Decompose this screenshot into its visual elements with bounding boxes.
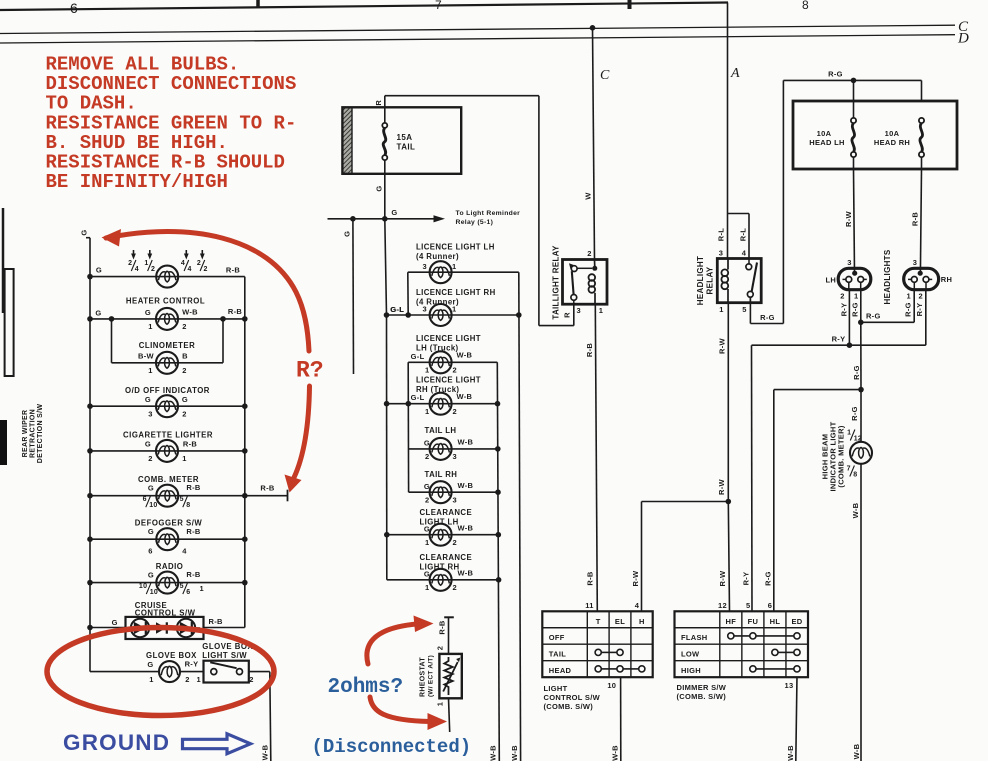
svg-text:6: 6 — [148, 546, 152, 555]
svg-text:TAILLIGHT RELAY: TAILLIGHT RELAY — [551, 245, 560, 320]
svg-text:7: 7 — [435, 0, 442, 12]
svg-text:(COMB. S/W): (COMB. S/W) — [677, 692, 727, 701]
svg-text:HEAD RH: HEAD RH — [874, 138, 910, 147]
svg-text:3: 3 — [719, 249, 723, 258]
svg-text:RH: RH — [941, 275, 952, 284]
svg-text:R-Y: R-Y — [185, 660, 199, 669]
svg-text:(4 Runner): (4 Runner) — [416, 252, 459, 261]
svg-text:1: 1 — [144, 260, 148, 267]
svg-text:1: 1 — [452, 262, 456, 271]
svg-text:B-W: B-W — [138, 352, 155, 361]
svg-text:R-G: R-G — [828, 70, 843, 79]
svg-text:7: 7 — [847, 466, 851, 473]
svg-text:H: H — [639, 617, 645, 626]
svg-text:1: 1 — [149, 675, 153, 684]
svg-text:RADIO: RADIO — [156, 562, 184, 571]
svg-text:11: 11 — [585, 601, 594, 610]
svg-text:R-L: R-L — [738, 228, 747, 242]
svg-text:5: 5 — [180, 496, 184, 503]
svg-text:3: 3 — [913, 258, 917, 267]
svg-text:1: 1 — [425, 407, 429, 416]
svg-text:2: 2 — [453, 583, 457, 592]
svg-text:2ohms?: 2ohms? — [328, 676, 404, 699]
svg-text:10: 10 — [149, 502, 157, 509]
svg-text:HEAD LH: HEAD LH — [809, 138, 844, 147]
svg-text:DETECTION S/W: DETECTION S/W — [37, 404, 44, 464]
svg-text:10: 10 — [150, 589, 158, 596]
svg-text:T: T — [596, 617, 601, 626]
svg-text:R-B: R-B — [183, 439, 198, 448]
svg-text:2: 2 — [425, 495, 429, 504]
svg-text:1: 1 — [425, 538, 429, 547]
svg-text:FLASH: FLASH — [681, 633, 708, 642]
svg-text:R-G: R-G — [850, 406, 859, 421]
svg-text:W-B: W-B — [488, 745, 497, 761]
svg-text:2: 2 — [197, 260, 201, 267]
svg-text:10: 10 — [139, 583, 147, 590]
svg-text:3: 3 — [577, 306, 581, 315]
svg-text:CLEARANCE: CLEARANCE — [420, 508, 473, 517]
svg-text:1: 1 — [182, 454, 186, 463]
svg-text:2: 2 — [453, 538, 457, 547]
svg-text:HEAD: HEAD — [549, 666, 572, 675]
svg-text:6: 6 — [70, 0, 78, 16]
svg-text:LICENCE LIGHT RH: LICENCE LIGHT RH — [416, 288, 496, 297]
svg-text:(W/ ECT A/T): (W/ ECT A/T) — [428, 655, 435, 697]
svg-text:A: A — [730, 66, 740, 81]
svg-text:8: 8 — [186, 502, 190, 509]
svg-text:G: G — [148, 571, 154, 580]
svg-text:W-B: W-B — [786, 745, 795, 761]
svg-text:1: 1 — [425, 366, 429, 375]
svg-text:G: G — [80, 229, 89, 235]
svg-text:CLEARANCE: CLEARANCE — [420, 553, 473, 562]
svg-text:R-G: R-G — [904, 302, 913, 317]
svg-text:R-G: R-G — [760, 313, 775, 322]
svg-text:2: 2 — [919, 292, 923, 301]
svg-text:2: 2 — [151, 266, 155, 273]
svg-text:R-B: R-B — [186, 483, 201, 492]
svg-text:W-B: W-B — [510, 745, 519, 761]
svg-text:1: 1 — [148, 322, 152, 331]
svg-text:DIMMER S/W: DIMMER S/W — [677, 683, 727, 692]
svg-text:LICENCE LIGHT: LICENCE LIGHT — [416, 334, 481, 343]
svg-text:1: 1 — [148, 366, 152, 375]
svg-text:CONTROL S/W: CONTROL S/W — [544, 693, 601, 702]
svg-text:6: 6 — [768, 601, 772, 610]
svg-text:4: 4 — [181, 260, 185, 267]
svg-text:TAIL RH: TAIL RH — [425, 470, 458, 479]
svg-text:CLINOMETER: CLINOMETER — [139, 341, 196, 350]
svg-text:W-B: W-B — [182, 308, 198, 317]
svg-text:R-Y: R-Y — [915, 303, 924, 317]
svg-text:(COMB. METER): (COMB. METER) — [837, 425, 846, 487]
svg-text:B: B — [182, 352, 188, 361]
svg-text:G-L: G-L — [411, 352, 425, 361]
svg-text:W-B: W-B — [458, 524, 474, 533]
svg-text:5: 5 — [746, 601, 750, 610]
svg-text:2: 2 — [587, 249, 591, 258]
svg-text:R-W: R-W — [844, 210, 853, 227]
svg-text:ED: ED — [791, 617, 802, 626]
svg-text:W-B: W-B — [611, 745, 620, 761]
svg-text:G: G — [343, 231, 352, 237]
svg-text:G: G — [424, 439, 430, 448]
svg-text:10: 10 — [607, 681, 616, 690]
svg-text:R-Y: R-Y — [832, 334, 846, 343]
svg-text:2: 2 — [435, 646, 444, 650]
svg-text:2: 2 — [204, 266, 208, 273]
svg-text:HIGH: HIGH — [681, 666, 701, 675]
svg-text:HEATER CONTROL: HEATER CONTROL — [126, 296, 205, 305]
svg-text:(COMB. S/W): (COMB. S/W) — [544, 702, 594, 711]
svg-text:3: 3 — [423, 262, 427, 271]
svg-text:W-B: W-B — [458, 569, 474, 578]
svg-text:5: 5 — [180, 583, 184, 590]
svg-text:2: 2 — [453, 407, 457, 416]
svg-text:R-G: R-G — [763, 571, 772, 586]
svg-text:2: 2 — [182, 366, 186, 375]
svg-text:TAIL LH: TAIL LH — [425, 426, 457, 435]
svg-text:3: 3 — [148, 409, 152, 418]
svg-text:R-B: R-B — [437, 620, 446, 635]
svg-text:2: 2 — [185, 675, 189, 684]
svg-text:G: G — [148, 484, 154, 493]
svg-text:G: G — [424, 570, 430, 579]
svg-text:1: 1 — [452, 305, 456, 314]
svg-text:R-L: R-L — [716, 228, 725, 242]
svg-text:3: 3 — [453, 495, 457, 504]
svg-text:EL: EL — [615, 617, 625, 626]
svg-text:1: 1 — [854, 292, 858, 301]
svg-text:G: G — [148, 527, 154, 536]
svg-text:R-B: R-B — [911, 212, 920, 227]
svg-text:LICENCE LIGHT: LICENCE LIGHT — [416, 376, 481, 385]
svg-text:G: G — [147, 660, 153, 669]
svg-text:2: 2 — [148, 454, 152, 463]
svg-text:CIGARETTE LIGHTER: CIGARETTE LIGHTER — [123, 431, 213, 440]
svg-text:2: 2 — [425, 452, 429, 461]
svg-text:G-L: G-L — [411, 393, 425, 402]
svg-text:2: 2 — [182, 409, 186, 418]
svg-text:6: 6 — [143, 496, 147, 503]
svg-text:R-B: R-B — [585, 343, 594, 358]
svg-text:4: 4 — [742, 249, 747, 258]
svg-text:W-B: W-B — [458, 481, 474, 490]
svg-text:W-B: W-B — [260, 744, 269, 760]
svg-text:O/D OFF INDICATOR: O/D OFF INDICATOR — [125, 386, 210, 395]
svg-text:R-B: R-B — [228, 307, 243, 316]
svg-text:G: G — [95, 309, 101, 318]
svg-text:13: 13 — [785, 681, 794, 690]
svg-text:G: G — [145, 395, 151, 404]
svg-text:R-G: R-G — [851, 302, 860, 317]
svg-text:R-B: R-B — [226, 266, 241, 275]
svg-text:(Disconnected): (Disconnected) — [312, 736, 472, 758]
svg-text:R-B: R-B — [585, 571, 594, 586]
svg-text:1: 1 — [907, 292, 911, 301]
svg-text:TAIL: TAIL — [397, 142, 416, 151]
svg-text:10A: 10A — [885, 129, 900, 138]
svg-text:G-L: G-L — [390, 305, 404, 314]
svg-text:GROUND: GROUND — [63, 730, 170, 755]
svg-text:R-G: R-G — [866, 312, 881, 321]
svg-text:G: G — [96, 266, 102, 275]
svg-text:2: 2 — [182, 322, 186, 331]
svg-text:R-B: R-B — [260, 484, 275, 493]
svg-text:10A: 10A — [817, 129, 832, 138]
svg-text:LOW: LOW — [681, 649, 700, 658]
svg-text:2: 2 — [128, 260, 132, 267]
svg-text:8: 8 — [853, 472, 857, 479]
svg-text:R-B: R-B — [186, 527, 201, 536]
svg-text:R?: R? — [296, 358, 324, 384]
svg-text:FU: FU — [748, 617, 759, 626]
svg-text:HL: HL — [770, 617, 781, 626]
svg-text:TAIL: TAIL — [549, 649, 566, 658]
svg-text:G: G — [182, 395, 188, 404]
svg-text:R-W: R-W — [718, 570, 727, 587]
svg-text:15A: 15A — [397, 133, 413, 142]
svg-text:1: 1 — [719, 305, 723, 314]
svg-text:REAR WIPER: REAR WIPER — [22, 410, 29, 458]
svg-text:W-B: W-B — [852, 743, 861, 759]
svg-text:GLOVE BOX: GLOVE BOX — [146, 651, 197, 660]
svg-text:1: 1 — [425, 583, 429, 592]
svg-text:3: 3 — [453, 452, 457, 461]
svg-text:To Light Reminder: To Light Reminder — [456, 210, 521, 217]
svg-text:RHEOSTAT: RHEOSTAT — [420, 657, 427, 697]
svg-text:W: W — [584, 192, 593, 200]
svg-text:R-Y: R-Y — [741, 572, 750, 586]
svg-text:G: G — [145, 440, 151, 449]
svg-text:R-Y: R-Y — [840, 303, 849, 317]
svg-text:RELAY: RELAY — [706, 266, 715, 294]
svg-text:12: 12 — [718, 601, 727, 610]
svg-text:D: D — [957, 31, 969, 47]
svg-text:2: 2 — [249, 675, 253, 684]
svg-text:3: 3 — [847, 258, 851, 267]
svg-text:R-W: R-W — [631, 570, 640, 587]
svg-text:R-B: R-B — [209, 617, 224, 626]
svg-text:LH: LH — [825, 275, 836, 284]
svg-text:W-B: W-B — [457, 392, 473, 401]
svg-text:W-B: W-B — [851, 502, 860, 518]
svg-text:1: 1 — [435, 702, 444, 706]
svg-text:4: 4 — [135, 266, 139, 273]
svg-text:R-W: R-W — [717, 337, 726, 354]
svg-text:W-B: W-B — [457, 351, 473, 360]
svg-text:R-G: R-G — [852, 365, 861, 380]
svg-text:4: 4 — [182, 546, 187, 555]
svg-text:1: 1 — [599, 306, 603, 315]
svg-text:G: G — [424, 482, 430, 491]
svg-text:4: 4 — [188, 266, 192, 273]
svg-text:1: 1 — [847, 430, 851, 437]
svg-text:R-B: R-B — [186, 570, 201, 579]
svg-text:4: 4 — [635, 601, 640, 610]
svg-text:LIGHT: LIGHT — [544, 684, 568, 693]
svg-text:LIGHT S/W: LIGHT S/W — [202, 651, 247, 660]
svg-text:G: G — [375, 185, 384, 191]
svg-text:2: 2 — [453, 366, 457, 375]
svg-text:R-W: R-W — [717, 478, 726, 495]
svg-text:6: 6 — [186, 589, 190, 596]
svg-text:HEADLIGHT: HEADLIGHT — [696, 256, 705, 305]
svg-text:HEADLIGHTS: HEADLIGHTS — [883, 249, 892, 304]
svg-text:OFF: OFF — [549, 633, 565, 642]
svg-text:12: 12 — [854, 436, 862, 443]
svg-text:G: G — [391, 208, 397, 217]
svg-text:HF: HF — [726, 617, 737, 626]
svg-text:LICENCE LIGHT LH: LICENCE LIGHT LH — [416, 243, 495, 252]
svg-text:G: G — [145, 308, 151, 317]
svg-text:1: 1 — [197, 675, 201, 684]
svg-text:Relay (5-1): Relay (5-1) — [456, 219, 494, 226]
svg-text:BE INFINITY/HIGH: BE INFINITY/HIGH — [46, 171, 228, 193]
svg-text:8: 8 — [802, 0, 809, 12]
svg-text:2: 2 — [840, 292, 844, 301]
svg-text:C: C — [600, 68, 610, 83]
svg-text:W-B: W-B — [458, 438, 474, 447]
svg-text:R: R — [563, 312, 572, 318]
svg-text:R: R — [374, 100, 383, 106]
svg-text:G: G — [112, 618, 118, 627]
svg-text:1: 1 — [200, 584, 204, 593]
svg-text:5: 5 — [742, 305, 746, 314]
svg-text:RETRACTION: RETRACTION — [30, 409, 37, 458]
svg-text:G: G — [424, 525, 430, 534]
svg-text:3: 3 — [423, 305, 427, 314]
